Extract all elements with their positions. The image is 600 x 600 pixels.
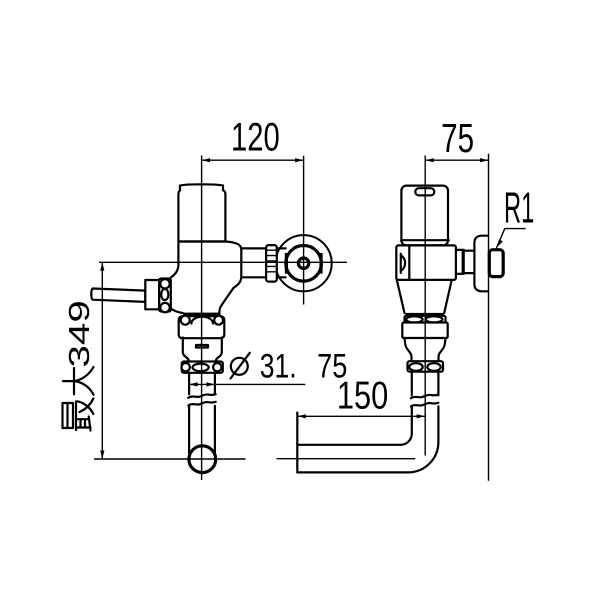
svg-text:75: 75 <box>441 115 474 161</box>
svg-text:120: 120 <box>231 115 280 160</box>
svg-text:349: 349 <box>64 300 96 367</box>
svg-text:75: 75 <box>317 346 347 385</box>
svg-text:R1: R1 <box>504 184 534 232</box>
svg-text:31.: 31. <box>260 347 297 385</box>
